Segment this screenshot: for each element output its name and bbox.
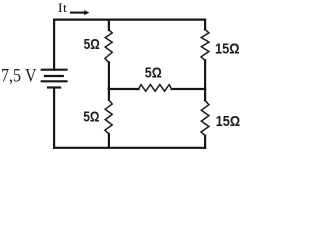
svg-text:15Ω: 15Ω [216, 113, 241, 130]
resistor R1 5ohm top middle zigzag [105, 30, 112, 63]
resistor R3 5ohm bottom middle zigzag [105, 100, 112, 134]
svg-text:15Ω: 15Ω [215, 40, 240, 57]
wire stub bottom of R1 [108, 62, 110, 89]
wire stub top of R2 [204, 20, 206, 30]
svg-text:5Ω: 5Ω [84, 36, 100, 53]
wire stub top of R1 [108, 20, 110, 30]
wire middle horizontal left part [109, 88, 139, 90]
wire left lower [53, 88, 55, 148]
wire stub top of R3 [108, 89, 110, 100]
wire stub top of R5 [204, 89, 206, 100]
svg-text:7,5 V: 7,5 V [1, 65, 37, 86]
resistor R2 15ohm top right zigzag [201, 29, 209, 60]
wire middle horizontal right part [172, 88, 206, 90]
battery V1 plates [42, 70, 67, 88]
wire top [54, 19, 205, 21]
svg-text:5Ω: 5Ω [145, 65, 162, 82]
wire left upper [53, 20, 55, 70]
resistor R5 15ohm bottom right zigzag [201, 100, 209, 135]
svg-text:5Ω: 5Ω [83, 109, 99, 126]
wire stub bottom of R2 [204, 60, 206, 89]
wire stub bottom of R5 [204, 136, 206, 148]
current arrow It [70, 10, 89, 15]
svg-text:It: It [58, 0, 68, 15]
resistor R4 5ohm middle horizontal zigzag [139, 85, 172, 92]
wire bottom [54, 147, 205, 149]
wire stub bottom of R3 [108, 134, 110, 148]
